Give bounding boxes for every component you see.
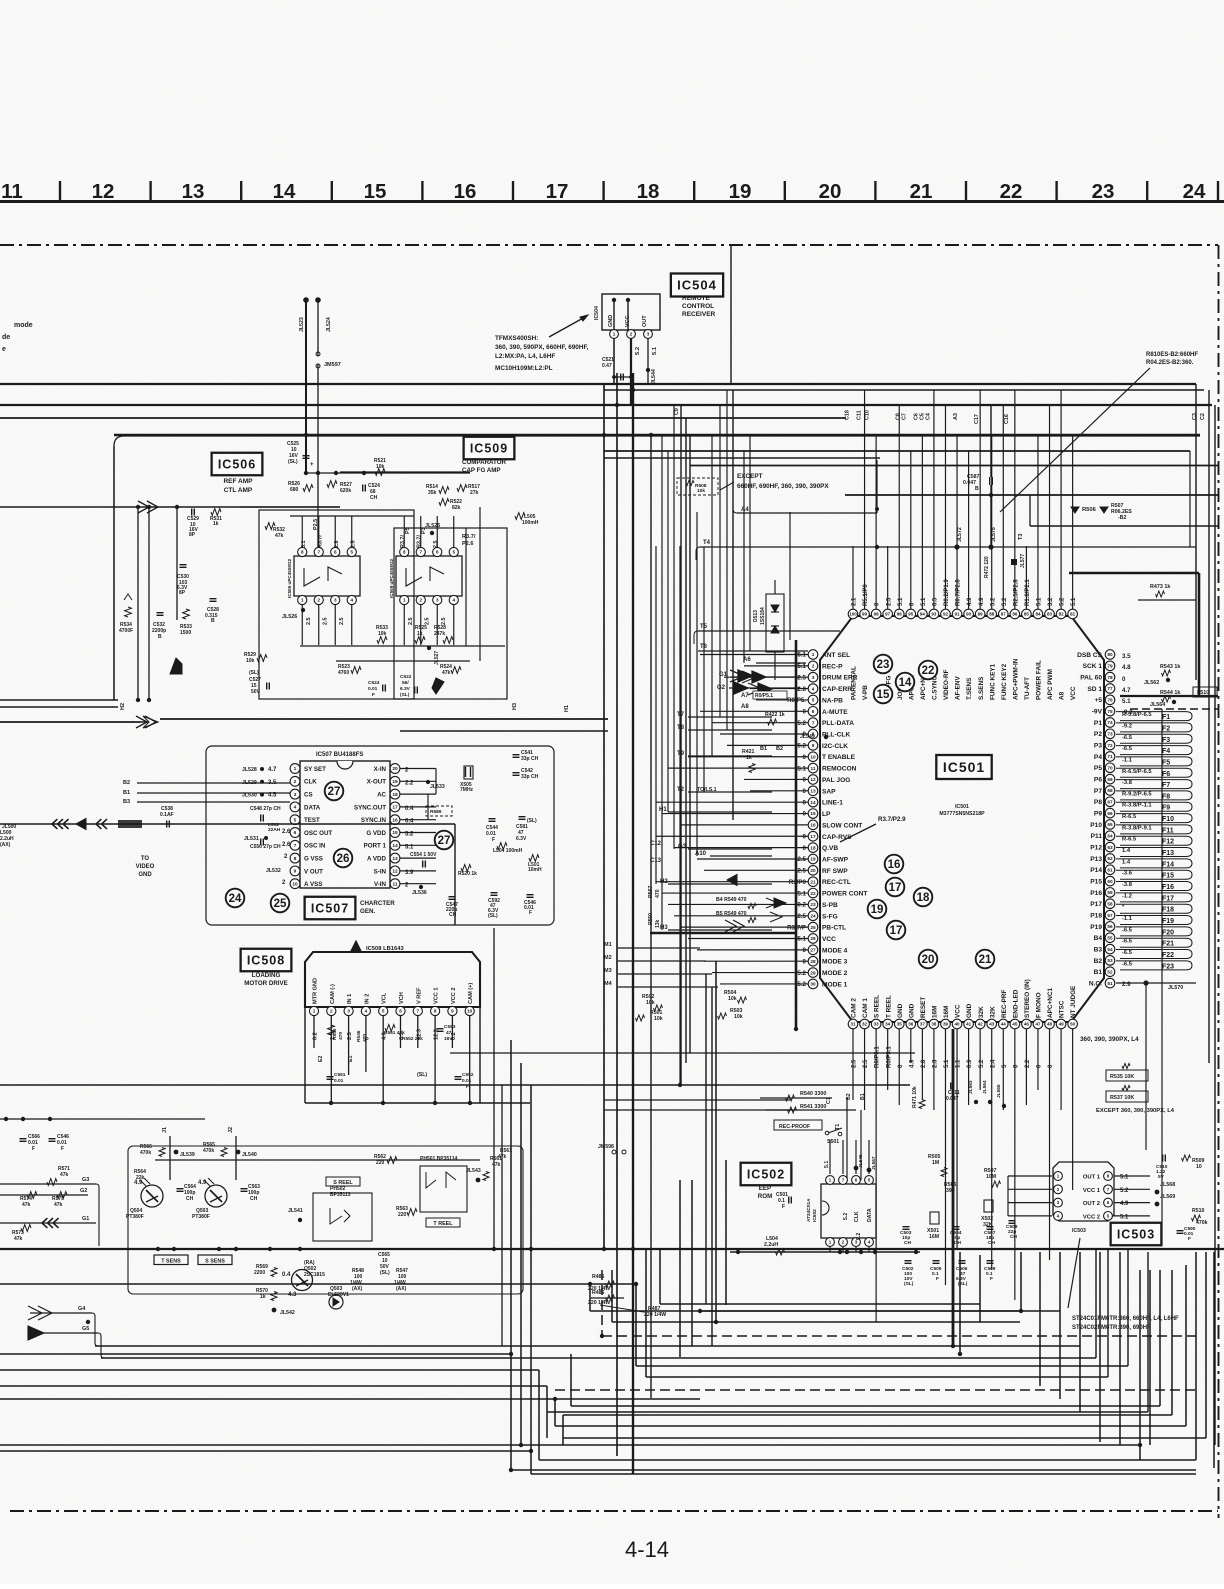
wire bus bottom right	[95, 1304, 1196, 1474]
wire heavy 933	[650, 932, 796, 935]
IC502 pin 5	[865, 1176, 874, 1185]
IC508 pin 1	[309, 978, 318, 1016]
IC502 label	[741, 1163, 792, 1186]
IC507 pin 10	[290, 879, 322, 889]
labels B2 B1 vertical	[846, 1093, 866, 1180]
resistor R573	[12, 1225, 31, 1242]
resistor R564 22k	[134, 1169, 146, 1181]
IC503 pin 3	[1054, 1198, 1063, 1207]
wire G4	[28, 1306, 98, 1346]
transistor Q504 PT380F	[126, 1178, 163, 1220]
IC507 pin 5	[290, 815, 320, 825]
jumper JL541	[288, 1208, 303, 1222]
IC503 pin 5	[1104, 1212, 1113, 1221]
jumper JL565	[996, 1084, 1006, 1108]
junction dots bus	[86, 388, 1142, 1472]
wire B1	[123, 790, 290, 796]
wire T6	[698, 644, 808, 651]
capacitor C506	[956, 1261, 968, 1287]
wire IC509 pin 4 stub	[453, 605, 455, 646]
wire video gnd	[0, 824, 455, 925]
grid ruler ticks	[60, 181, 1218, 201]
IC501 pin 20	[797, 866, 848, 876]
wire IC509 pin 3 stub	[436, 605, 438, 646]
net F12	[1122, 837, 1174, 846]
IC501 pin 3	[797, 672, 857, 682]
label J1	[162, 1127, 170, 1180]
wire IC508 bottom	[305, 1007, 530, 1103]
IC501 pin 38	[929, 1006, 939, 1068]
IC504 pin 1	[610, 330, 619, 339]
IC506 op-amp A	[304, 568, 320, 586]
IC501 part number	[939, 804, 985, 817]
IC501 pin 29	[797, 968, 847, 978]
resistor R471 10k	[912, 1086, 925, 1108]
note R535 10K box	[1106, 1064, 1148, 1082]
IC507 character gen body	[300, 761, 390, 888]
wire G5	[28, 1326, 104, 1358]
net F16	[1122, 882, 1174, 891]
arrow dark up	[170, 658, 182, 674]
resistor R547 100	[394, 1268, 408, 1292]
wire bus bottom left	[0, 1354, 1140, 1451]
IC501 pin 55	[1094, 933, 1115, 943]
IC501 pin 61	[1090, 865, 1115, 875]
IC507 pin 7	[290, 840, 326, 850]
jumper JL542	[272, 1308, 295, 1316]
label J2	[228, 1127, 236, 1180]
net F21	[1122, 939, 1174, 948]
arrow black servo	[432, 678, 444, 694]
inductor L500	[0, 824, 16, 848]
jumper JL569	[1155, 1194, 1176, 1206]
IC501 pin 33	[871, 995, 881, 1068]
optocoupler PH501	[420, 1156, 467, 1212]
capacitor C530	[177, 565, 189, 596]
resistor R486 220	[588, 1290, 624, 1306]
resistor R589 dashed	[426, 806, 452, 816]
capacitor C581	[516, 817, 537, 842]
switch REC-PROOF	[774, 1120, 842, 1145]
IC507 pin 15	[366, 828, 400, 838]
IC501 pin 35	[894, 1003, 904, 1068]
net F2	[1122, 723, 1170, 732]
test point 14	[896, 673, 915, 692]
capacitor C563	[241, 1184, 261, 1202]
IC509 pin 3	[433, 595, 442, 604]
capacitor C587	[963, 405, 992, 547]
resistor R525	[415, 625, 427, 643]
IC501 pin 70	[1094, 763, 1115, 773]
IC501 pin 46	[1022, 979, 1032, 1068]
IC509 pin 2	[416, 595, 425, 604]
IC501 pin 40	[952, 1004, 962, 1068]
wire T5	[694, 624, 840, 644]
jumper JL563	[968, 1080, 978, 1104]
IC507 pin 14	[364, 840, 400, 850]
transistor Q503 PT380F	[192, 1178, 227, 1220]
capacitor C548	[250, 806, 281, 822]
arrow IC501 left cluster	[725, 670, 752, 932]
IC508 pin 4	[361, 994, 370, 1016]
IC506 pin 8	[298, 547, 307, 556]
IC509 op-amp A	[406, 568, 422, 586]
IC501 pin 4	[797, 684, 852, 694]
IC501 pin 93	[929, 597, 939, 700]
IC501 pin 85	[1022, 579, 1032, 700]
IC506 op-amp B	[328, 567, 342, 581]
wire T4	[696, 540, 1196, 560]
IC501 pin 88	[987, 597, 997, 700]
IC501 pin 83	[1045, 597, 1055, 700]
wire IC506 pin 7 stub	[318, 516, 320, 548]
resistor R551 47k	[384, 1025, 405, 1036]
resistor R505 1M	[928, 1154, 947, 1177]
IC507 pin 17	[354, 802, 400, 812]
inductor L505	[515, 513, 539, 526]
wire vertical feeders IC501 left	[656, 390, 790, 1085]
resistor R510 470k	[1192, 1208, 1208, 1226]
IC501 pin 30	[797, 979, 847, 989]
resistor R473 1k	[1138, 584, 1196, 600]
note ST24C01	[1072, 1316, 1179, 1331]
jumper JL527	[427, 646, 440, 665]
note mode text	[2, 322, 33, 353]
net F4	[1122, 746, 1170, 755]
net F5	[1122, 757, 1170, 766]
label IC503 small	[1068, 1228, 1086, 1308]
IC501 pin 71	[1094, 752, 1115, 762]
capacitor C554	[410, 852, 437, 868]
IC501 pin 21	[789, 877, 851, 887]
IC501 pin 99	[860, 584, 870, 700]
test point 23	[874, 655, 893, 674]
resistor R546 470	[356, 1030, 368, 1042]
wire F loops	[1116, 712, 1192, 970]
IC501 pin 80	[1077, 650, 1115, 660]
IC501 pin 94	[918, 597, 928, 700]
IC501 pin 25	[787, 922, 846, 932]
IC501 pin 63	[1090, 842, 1115, 852]
inductor L504 2.2uH	[764, 1236, 785, 1255]
diode R507 R06.2ES	[1100, 503, 1132, 521]
IC508 title	[244, 972, 288, 987]
capacitor C538	[160, 806, 174, 828]
IC501 pin 49	[1056, 1000, 1066, 1029]
inductor L501	[528, 855, 542, 873]
resistor R507 10M	[984, 1168, 1001, 1187]
jumper JL540	[236, 1150, 257, 1158]
resistor R520	[458, 865, 477, 877]
wire G3	[0, 1177, 99, 1246]
note R537 10K box	[1106, 1086, 1148, 1103]
capacitor C544	[486, 819, 498, 843]
IC507 right pin values	[405, 768, 414, 889]
wire IC502 pin tops	[830, 1140, 869, 1174]
net F10	[1122, 814, 1174, 823]
IC501 pin 52	[1094, 967, 1115, 977]
net F20	[1122, 927, 1174, 936]
IC509 pin 6	[433, 547, 442, 556]
resistor R501 10k	[636, 1010, 663, 1022]
IC501 pin 47	[1033, 992, 1043, 1068]
IC501 pin 6	[803, 707, 849, 717]
wire H2 pair	[0, 700, 118, 707]
IC503 pin 1	[1054, 1172, 1063, 1181]
wire vertical bundle middle	[604, 298, 733, 1474]
IC504 label	[671, 274, 723, 297]
arrow video chevrons	[52, 819, 142, 830]
IC506 pin 2	[314, 595, 323, 604]
resistor R503 10k	[718, 1008, 743, 1020]
wire G1	[0, 1216, 96, 1228]
IC501 microcontroller outline	[820, 616, 1104, 1022]
box IC506 inner	[259, 510, 414, 699]
resistor R422 1k	[765, 712, 785, 725]
IC501 pin 62	[1090, 854, 1115, 864]
optocoupler PH502	[313, 1186, 372, 1241]
test point 27 IC507	[325, 782, 344, 801]
IC501 pin 95	[906, 602, 916, 700]
IC501 pin 2	[797, 661, 843, 671]
warning triangle IC508	[351, 941, 404, 952]
IC503 pin 4	[1054, 1212, 1063, 1221]
IC507 pin 13	[367, 853, 400, 863]
wire ground bus main	[0, 1247, 1224, 1251]
wire IC509 pin 1 stub	[403, 605, 405, 646]
wire IC506 pin 1 stub	[301, 605, 303, 646]
capacitor C590	[1177, 1226, 1196, 1242]
net F13	[1122, 848, 1174, 857]
IC501 pin 57	[1090, 910, 1115, 920]
jumper JL568	[1155, 1182, 1176, 1194]
IC508 pin 7	[413, 987, 422, 1016]
capacitor C541	[513, 750, 539, 762]
capacitor C504	[950, 1227, 962, 1246]
label S REEL box	[326, 1177, 360, 1186]
resistor R543 1k	[1160, 664, 1180, 676]
capacitor C502	[902, 1261, 914, 1287]
IC504 title text	[682, 295, 716, 318]
resistor R523	[338, 664, 361, 676]
resistor R531	[210, 509, 222, 527]
wire net into IC506	[0, 506, 340, 508]
resistor R571	[47, 1166, 70, 1185]
test point 16	[885, 855, 904, 874]
labels IC509 pin values	[400, 527, 447, 625]
wire left rows	[0, 1085, 910, 1121]
resistor R533	[376, 625, 388, 643]
wire IC501 bottom leads	[853, 1029, 1073, 1322]
IC506 pin 1	[298, 595, 307, 604]
jumper JL564	[1150, 700, 1176, 708]
IC502 pin b2	[839, 1238, 848, 1247]
IC507 pin 2	[290, 776, 317, 786]
label S SENS box	[198, 1255, 232, 1265]
label R3.7/P2.6	[462, 534, 476, 547]
capacitor C532	[152, 613, 166, 640]
IC507 pin 3	[290, 789, 313, 799]
IC501 pin 18	[803, 843, 839, 853]
labels IC506 pin values	[301, 519, 357, 625]
IC501 pin 89	[975, 597, 985, 700]
jumper JL536	[412, 885, 427, 896]
IC503 label	[1111, 1223, 1162, 1246]
capacitor C529	[187, 509, 199, 539]
label A7	[741, 691, 787, 699]
IC508 label	[241, 949, 292, 972]
IC508 pin 9	[448, 988, 457, 1016]
net F6	[1122, 769, 1170, 778]
IC501 pin 9	[797, 741, 848, 751]
jumper JL562	[1144, 678, 1170, 686]
IC508 pin 10	[465, 983, 474, 1016]
resistor R529	[244, 652, 267, 664]
IC507 pin 9	[290, 866, 323, 876]
IC501 pin 51	[1089, 978, 1115, 988]
wire IC509 pin 5 stub	[453, 516, 455, 548]
net F14	[1122, 859, 1174, 868]
resistor R517	[457, 484, 480, 496]
IC504 pin 3	[644, 330, 653, 339]
test point 17	[886, 878, 905, 897]
wire left stubs IC501	[668, 717, 772, 930]
jumper JL525	[425, 523, 440, 535]
jumper JL544	[646, 368, 657, 384]
leader line R810ES	[1000, 368, 1150, 512]
op-amp IC506 uPC4558G2	[287, 516, 360, 645]
IC501 pin 53	[1094, 956, 1115, 966]
inductor L502	[268, 822, 281, 833]
resistor R521	[374, 458, 386, 475]
IC501 pin 45	[1010, 989, 1020, 1068]
wire servo verticals	[136, 505, 179, 702]
IC501 pin 92	[941, 579, 951, 700]
IC507 left pin values	[242, 767, 291, 886]
IC501 pin 13	[803, 786, 837, 796]
IC501 pin 7	[797, 718, 854, 728]
label TO VIDEO GND	[136, 856, 155, 878]
wire +5 heavy corner	[1030, 495, 1218, 696]
net F8	[1122, 791, 1170, 800]
IC506 pin 4	[347, 595, 356, 604]
jumper JM597	[316, 352, 341, 368]
IC501 pin 54	[1094, 944, 1115, 954]
test point 19	[868, 900, 887, 919]
IC501 pin 82	[1056, 597, 1066, 700]
note EXCEPT 660HF	[677, 473, 829, 495]
wire IC506 pin 8 stub	[301, 516, 303, 548]
IC501 pin 48	[1045, 988, 1055, 1068]
test point 21	[976, 950, 995, 969]
wire JL523 JL524 pair	[299, 297, 470, 552]
jumper JL575	[988, 527, 997, 549]
wire IC509 pin 8 stub	[403, 516, 405, 548]
IC501 pin 32	[860, 998, 870, 1068]
test point 15	[874, 685, 893, 704]
resistor R540 3300	[760, 1091, 832, 1101]
IC507 pin 20	[374, 764, 400, 774]
IC507 pin 8	[290, 853, 323, 863]
labels M1-M4	[604, 942, 718, 987]
jumper JL526	[282, 608, 305, 620]
IC501 pin 64	[1091, 831, 1115, 841]
IC502 pin 1	[826, 1176, 835, 1185]
resistor R487 220	[600, 1305, 666, 1318]
resistor R514	[426, 484, 449, 496]
resistor R526	[288, 481, 313, 493]
net F23	[1122, 961, 1174, 970]
test point 25	[271, 894, 290, 913]
IC501 pin 87	[998, 597, 1008, 700]
IC501 pin 76	[1094, 695, 1114, 705]
scan noise overlay	[0, 0, 1, 1]
capacitor C551	[327, 1072, 346, 1084]
wire G2	[0, 1188, 88, 1195]
IC501 pin 72	[1094, 740, 1115, 750]
crystal X505	[460, 766, 474, 793]
jumper JL564b	[982, 1080, 992, 1104]
IC501 pin 16	[808, 820, 862, 830]
box servo section outline	[114, 436, 1200, 700]
resistor R532	[265, 523, 285, 539]
IC501 pin 39	[941, 1006, 951, 1068]
label T SENS box	[154, 1255, 188, 1265]
capacitor C592	[488, 893, 500, 919]
resistor R534	[119, 594, 133, 634]
capacitor C566a	[20, 1134, 41, 1152]
capacitor C524	[363, 483, 380, 501]
IC501 pin 36	[906, 1003, 916, 1068]
IC501 pin 96	[894, 597, 904, 700]
wire IC501 gnd heavy	[796, 640, 953, 1346]
capacitor C546	[524, 895, 536, 916]
IC509 pin 1	[400, 595, 409, 604]
net F15	[1122, 871, 1174, 880]
resistor R548 100	[350, 1268, 364, 1292]
jumper JL531	[244, 836, 268, 842]
resistor R545 470	[328, 1025, 344, 1040]
resistor R541 3300	[766, 1104, 856, 1113]
IC501 pin 22	[797, 888, 867, 898]
jumper JL533	[426, 780, 445, 790]
net F9	[1122, 803, 1170, 812]
IC507 label	[305, 897, 356, 920]
labels B1 B2 T	[650, 712, 783, 931]
IC502 pin b3	[852, 1238, 861, 1247]
IC502 pin 6	[852, 1176, 861, 1185]
diode D503	[328, 1286, 349, 1309]
wire -9V dash	[1130, 708, 1218, 710]
IC506 label	[212, 453, 263, 476]
IC507 title	[360, 900, 395, 915]
test point 18	[914, 888, 933, 907]
wire B2	[123, 780, 290, 786]
wire IC503 pin leads	[1008, 1176, 1150, 1216]
capacitor C553	[437, 1024, 456, 1042]
wire rows below IC501	[450, 1053, 915, 1110]
net F3	[1122, 735, 1170, 744]
IC502 pin b1	[826, 1238, 835, 1247]
note R810ES	[1146, 352, 1198, 366]
resistor R506 390	[944, 1182, 957, 1194]
IC501 pin 28	[803, 956, 848, 966]
resistor R544 1k L510	[1160, 687, 1217, 702]
net F18	[1122, 905, 1174, 914]
IC509 pin 7	[416, 547, 425, 556]
IC507 pin 12	[374, 866, 400, 876]
capacitor C521	[368, 680, 385, 698]
